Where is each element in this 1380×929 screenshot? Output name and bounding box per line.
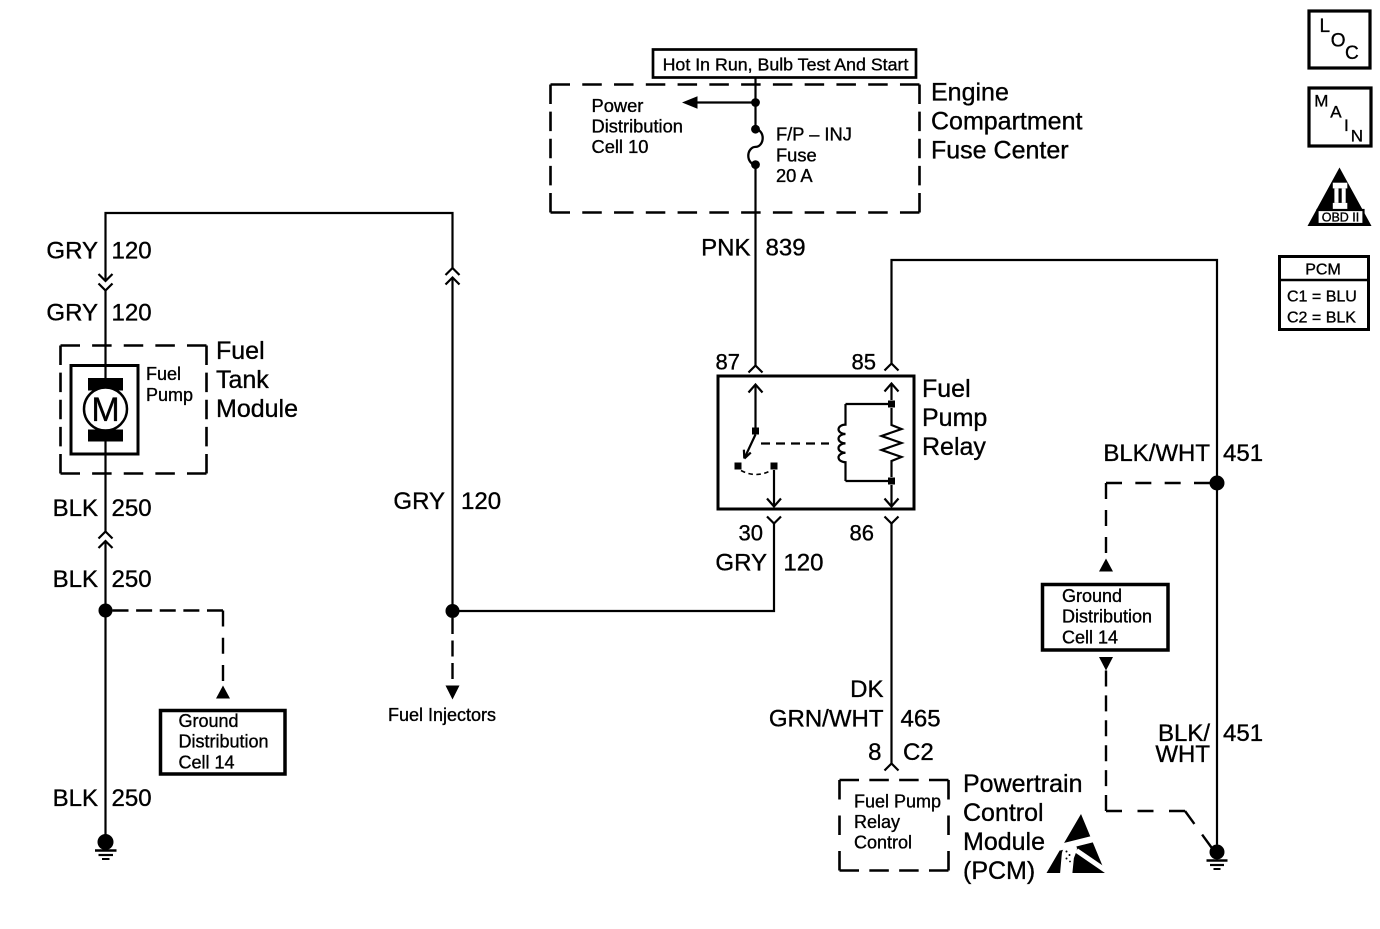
svg-text:M: M: [91, 391, 119, 429]
svg-text:GRY: GRY: [715, 549, 767, 576]
svg-text:Fuel Pump: Fuel Pump: [854, 791, 941, 811]
svg-text:Ground: Ground: [1062, 586, 1122, 606]
svg-text:85: 85: [852, 350, 876, 375]
svg-text:250: 250: [112, 495, 152, 522]
svg-text:Distribution: Distribution: [179, 732, 269, 752]
svg-text:Control: Control: [854, 833, 912, 853]
svg-text:120: 120: [461, 488, 501, 515]
svg-text:Fuse Center: Fuse Center: [931, 137, 1069, 165]
svg-text:250: 250: [112, 566, 152, 593]
svg-text:Cell 14: Cell 14: [1062, 627, 1118, 647]
svg-text:Tank: Tank: [216, 366, 269, 394]
svg-text:(PCM): (PCM): [963, 857, 1035, 885]
svg-text:C: C: [1345, 43, 1359, 64]
svg-text:GRY: GRY: [46, 300, 98, 327]
svg-text:BLK/WHT: BLK/WHT: [1103, 440, 1210, 467]
svg-text:120: 120: [783, 549, 823, 576]
svg-text:Fuse: Fuse: [776, 144, 817, 165]
svg-text:OBD II: OBD II: [1322, 211, 1360, 225]
svg-text:Hot In Run, Bulb Test And Star: Hot In Run, Bulb Test And Start: [663, 55, 909, 75]
svg-text:Control: Control: [963, 799, 1044, 827]
svg-text:Relay: Relay: [922, 433, 986, 461]
svg-text:A: A: [1330, 103, 1342, 122]
svg-text:Compartment: Compartment: [931, 108, 1082, 136]
svg-text:Power: Power: [592, 95, 644, 116]
svg-text:Powertrain: Powertrain: [963, 770, 1083, 798]
svg-text:C2: C2: [903, 739, 934, 766]
svg-text:BLK: BLK: [53, 566, 98, 593]
svg-text:Fuel Injectors: Fuel Injectors: [388, 705, 496, 725]
svg-text:120: 120: [112, 238, 152, 265]
svg-text:GRY: GRY: [393, 488, 445, 515]
svg-text:BLK: BLK: [53, 785, 98, 812]
svg-text:Fuel: Fuel: [146, 364, 181, 384]
svg-text:Ground: Ground: [179, 711, 239, 731]
svg-text:N: N: [1351, 127, 1363, 146]
svg-text:451: 451: [1223, 720, 1263, 747]
svg-text:Fuel: Fuel: [216, 337, 265, 365]
svg-text:86: 86: [850, 521, 874, 546]
svg-text:250: 250: [112, 785, 152, 812]
svg-text:BLK: BLK: [53, 495, 98, 522]
svg-text:M: M: [1314, 92, 1328, 111]
svg-text:C1 = BLU: C1 = BLU: [1287, 289, 1357, 306]
svg-text:Distribution: Distribution: [1062, 607, 1152, 627]
svg-text:PCM: PCM: [1305, 262, 1341, 279]
svg-text:Cell 14: Cell 14: [179, 752, 235, 772]
svg-text:O: O: [1331, 30, 1346, 51]
svg-text:C2 = BLK: C2 = BLK: [1287, 309, 1356, 326]
svg-text:Cell 10: Cell 10: [592, 136, 649, 157]
svg-text:Distribution: Distribution: [592, 116, 683, 137]
svg-text:Fuel: Fuel: [922, 375, 971, 403]
svg-text:120: 120: [112, 300, 152, 327]
svg-text:20 A: 20 A: [776, 165, 813, 186]
svg-text:GRY: GRY: [46, 238, 98, 265]
svg-text:Pump: Pump: [922, 404, 987, 432]
svg-text:Relay: Relay: [854, 812, 900, 832]
svg-text:PNK: PNK: [701, 234, 750, 261]
svg-text:465: 465: [901, 705, 941, 732]
svg-text:WHT: WHT: [1155, 741, 1210, 768]
svg-text:F/P – INJ: F/P – INJ: [776, 124, 852, 145]
svg-text:839: 839: [766, 234, 806, 261]
svg-text:DK: DK: [850, 676, 883, 703]
svg-text:Engine: Engine: [931, 79, 1009, 107]
svg-text:Module: Module: [216, 395, 298, 423]
svg-text:L: L: [1320, 16, 1331, 37]
svg-text:Pump: Pump: [146, 385, 193, 405]
svg-text:GRN/WHT: GRN/WHT: [769, 705, 884, 732]
svg-text:30: 30: [739, 521, 763, 546]
svg-text:8: 8: [868, 739, 881, 766]
svg-text:87: 87: [716, 350, 740, 375]
svg-text:Module: Module: [963, 828, 1045, 856]
svg-text:451: 451: [1223, 440, 1263, 467]
svg-text:I: I: [1344, 116, 1349, 135]
